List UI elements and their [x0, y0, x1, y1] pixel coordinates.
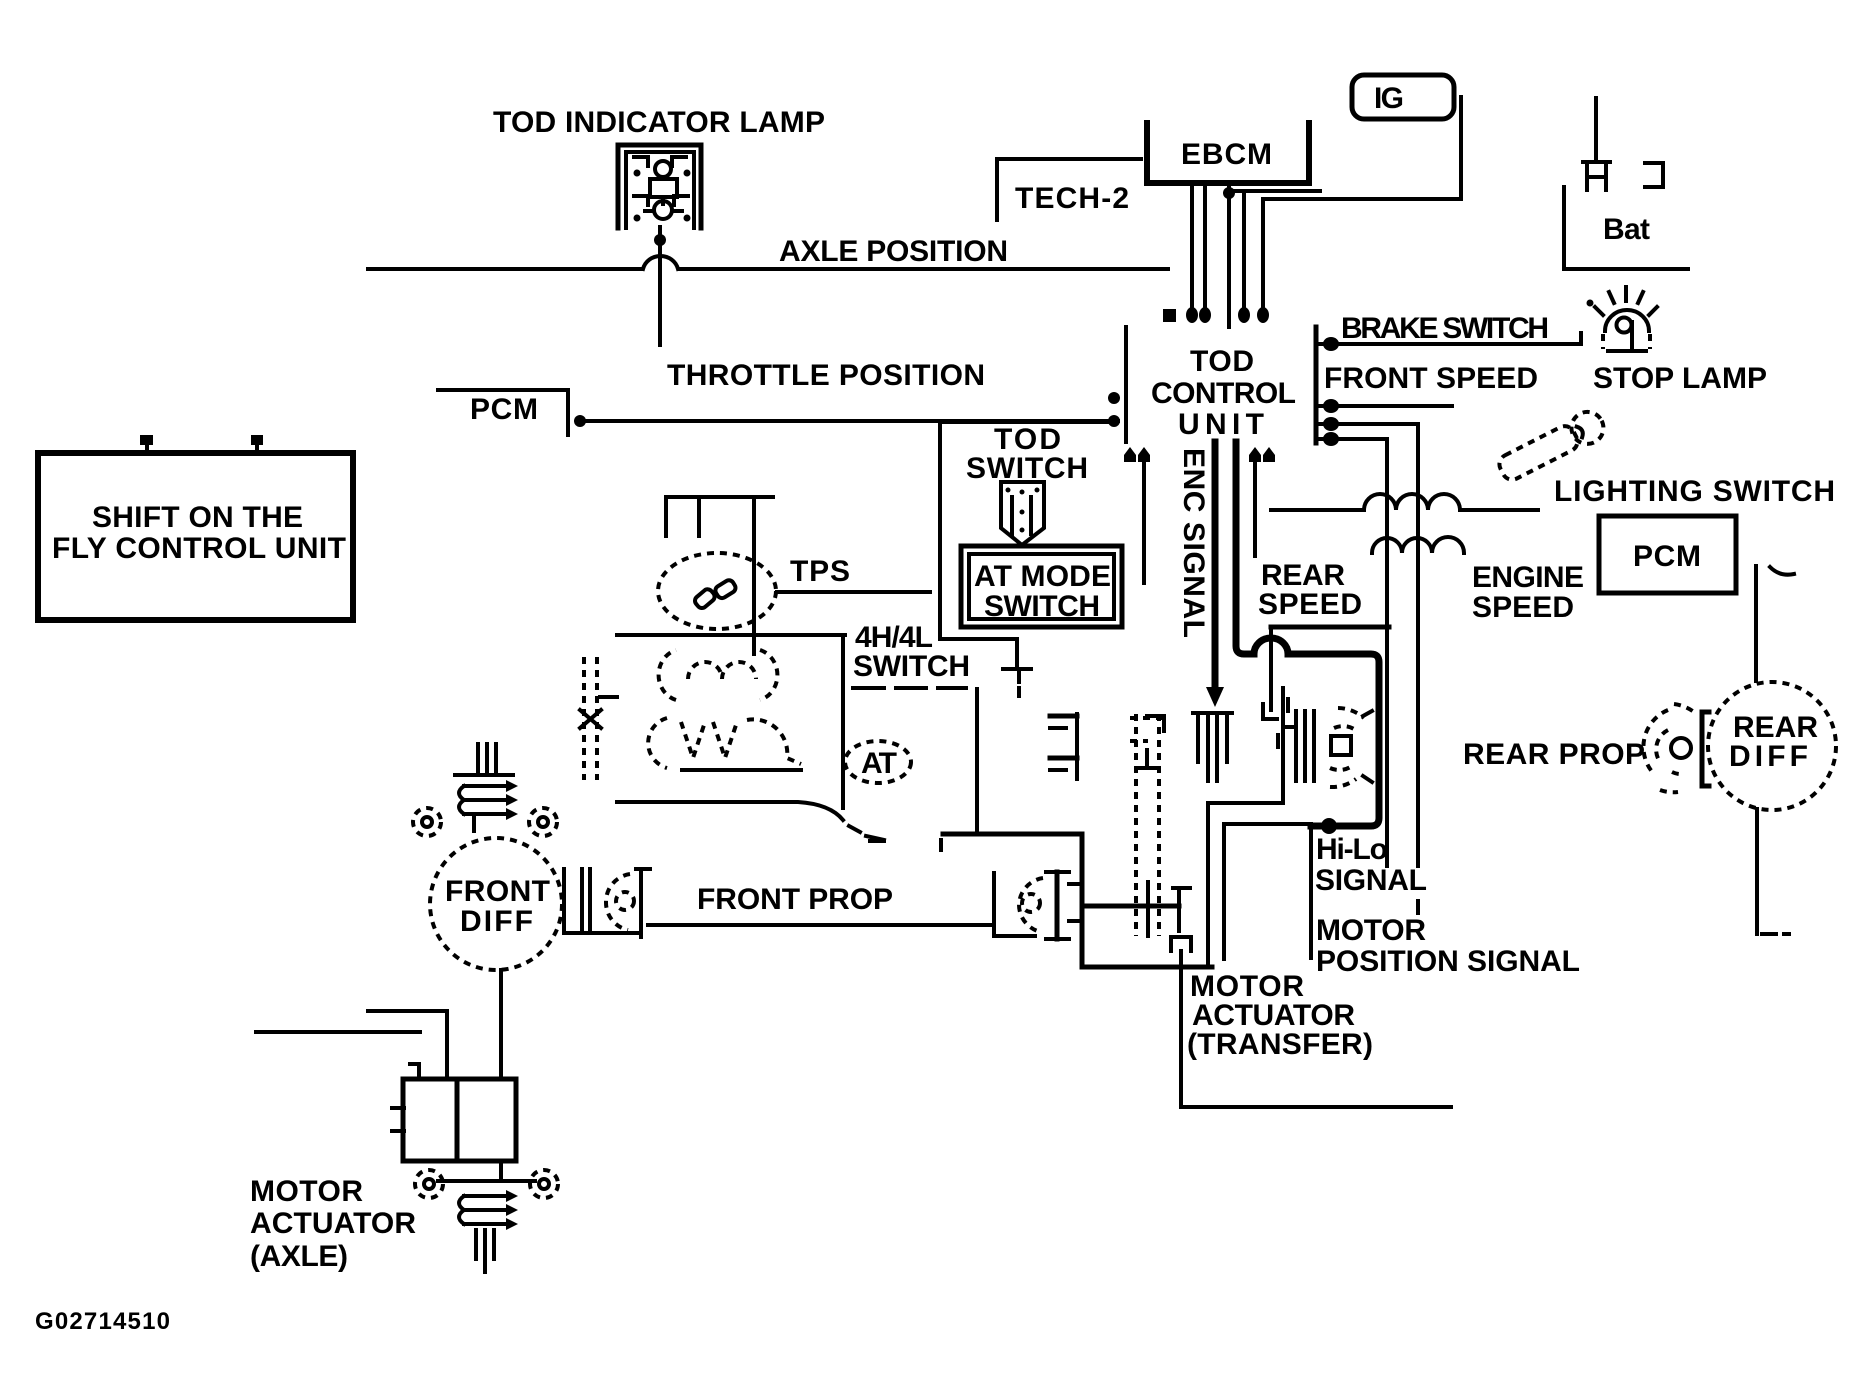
wire TECH-2	[997, 159, 1141, 220]
wire engine speed branch	[1318, 424, 1418, 866]
junction dot at TOD unit upper	[1108, 392, 1120, 404]
svg-text:(AXLE): (AXLE)	[250, 1240, 348, 1273]
connector blob pin c	[1238, 307, 1250, 323]
thin wire under hop	[1269, 629, 1273, 710]
svg-text:UNIT: UNIT	[1178, 408, 1264, 441]
battery plate right	[1645, 163, 1663, 187]
svg-text:AT: AT	[861, 747, 897, 780]
TOD switch panel top edge	[940, 421, 1115, 422]
svg-text:TECH-2: TECH-2	[1015, 182, 1129, 215]
AT case outline bottom with curve	[617, 802, 843, 820]
front prop right bracket L	[994, 873, 1035, 936]
wire front diff down	[499, 970, 503, 1079]
rear diff wire end dashes	[1762, 932, 1789, 936]
svg-text:TOD INDICATOR LAMP: TOD INDICATOR LAMP	[493, 106, 825, 139]
wire actuator to axle	[499, 1161, 503, 1181]
transfer output shaft	[1082, 904, 1179, 909]
circle REAR DIFF (dash-dot)	[1708, 682, 1836, 810]
wire from IG down and to EBCM area	[1263, 97, 1461, 318]
svg-text:STOP LAMP: STOP LAMP	[1593, 362, 1767, 395]
svg-text:MOTOR: MOTOR	[250, 1175, 363, 1208]
transmission case lower arcs (dashed)	[648, 718, 801, 768]
pin arrow 1 below TOD unit left	[1124, 447, 1136, 462]
wire EBCM pin 3	[1227, 183, 1231, 327]
svg-text:Bat: Bat	[1603, 213, 1650, 246]
svg-text:TPS: TPS	[790, 555, 850, 588]
transfer input shaft bar	[1046, 872, 1082, 939]
transfer case: selector dashed shafts	[1130, 714, 1165, 936]
TOD control unit left edge wire	[1124, 327, 1128, 442]
rear prop coupling bracket	[1702, 712, 1709, 786]
box motor actuator (axle)	[392, 1064, 516, 1161]
rear prop gear (dashed arcs + circle)	[1643, 704, 1694, 792]
wire EBCM pin 1	[1190, 183, 1194, 318]
pin arrow 4 mark	[1263, 447, 1275, 462]
front prop gear (dashed C + circle)	[606, 874, 634, 930]
svg-text:ENGINE: ENGINE	[1472, 561, 1584, 594]
transfer case housing top	[943, 832, 1082, 837]
wire clutch to motor actuator	[1208, 688, 1283, 964]
rear speed box bottom edge	[1271, 625, 1389, 630]
thick ENC signal wire with down arrow	[1206, 442, 1224, 707]
svg-text:AXLE POSITION: AXLE POSITION	[779, 235, 1008, 268]
transfer case: 4H4L contact bracket	[1140, 716, 1164, 768]
connector IG (rounded box)	[1352, 75, 1454, 119]
label TOD CONTROL UNIT	[1151, 345, 1296, 441]
pin arrow 3 with stub wire	[1249, 447, 1261, 556]
transmission input dashed shafts	[580, 657, 617, 780]
TOD switch panel left edge	[938, 422, 942, 639]
AT case trailing dashes	[849, 826, 884, 841]
svg-text:SWITCH: SWITCH	[984, 590, 1100, 623]
svg-text:DIFF: DIFF	[1729, 740, 1808, 773]
front prop bracket	[636, 869, 650, 937]
pin 2 on shift box	[251, 435, 263, 453]
lamp STOP LAMP icon	[1587, 287, 1658, 351]
transmission case top arcs (dashed)	[659, 650, 778, 700]
battery corner wire	[1564, 187, 1688, 269]
thick wire to transfer case right	[1288, 654, 1379, 826]
actuator spring symbol above front diff	[455, 744, 518, 831]
TPS link icon	[693, 573, 739, 616]
wire AXLE POSITION left segment	[368, 267, 642, 271]
wire stub upper left of actuator	[368, 1011, 447, 1079]
axle cross shaft	[438, 1179, 535, 1183]
transmission inner line	[682, 768, 801, 772]
box PCM right	[1599, 516, 1736, 593]
svg-text:IG: IG	[1374, 82, 1404, 115]
ground wire from TOD panel	[940, 639, 1017, 667]
svg-text:MOTOR: MOTOR	[1316, 914, 1426, 947]
svg-text:EBCM: EBCM	[1181, 138, 1272, 171]
wire TOD unit pin to rear-speed loop (thick)	[1236, 442, 1254, 654]
transfer case housing bottom	[1082, 965, 1212, 970]
circle FRONT DIFF (dash-dot)	[430, 838, 562, 970]
svg-text:CONTROL: CONTROL	[1151, 377, 1296, 410]
junction dot on EBCM pin 3	[1223, 187, 1235, 199]
svg-text:FRONT: FRONT	[445, 875, 550, 908]
Hi-Lo signal thin wire (n shape)	[1224, 824, 1311, 959]
wire EBCM branch stub	[1229, 189, 1320, 193]
transfer case: clutch pack 2	[1278, 699, 1314, 781]
connector blob pin d	[1257, 307, 1269, 323]
transfer case housing left vertical	[1080, 834, 1085, 967]
svg-text:G02714510: G02714510	[35, 1308, 170, 1335]
connector blob pin a	[1186, 307, 1198, 323]
transfer input gear (dashed C + circle)	[1019, 878, 1043, 932]
dash below engine-speed wire end	[1416, 901, 1420, 913]
svg-text:SWITCH: SWITCH	[853, 650, 970, 683]
pin 1 on shift box	[140, 435, 153, 453]
svg-text:SPEED: SPEED	[1258, 588, 1362, 621]
transfer case: clutch bracket L	[1263, 704, 1277, 719]
svg-text:THROTTLE POSITION: THROTTLE POSITION	[667, 359, 985, 392]
junction dot under lamp	[654, 234, 666, 246]
svg-text:AT MODE: AT MODE	[974, 560, 1111, 593]
svg-text:TOD: TOD	[1190, 345, 1254, 378]
svg-text:FRONT SPEED: FRONT SPEED	[1324, 362, 1538, 395]
AT case outline top	[617, 633, 845, 637]
wire EBCM pin 4	[1242, 191, 1246, 318]
wire AXLE POSITION right segment	[679, 267, 1168, 271]
svg-text:FLY CONTROL UNIT: FLY CONTROL UNIT	[52, 532, 346, 565]
wire lamp to axle-position line	[658, 227, 662, 345]
svg-text:LIGHTING SWITCH: LIGHTING SWITCH	[1554, 475, 1835, 508]
junction dot at TOD unit lower	[1108, 415, 1120, 427]
AT case outline right	[841, 635, 845, 808]
wire motor actuator transfer	[1181, 951, 1451, 1107]
battery feed wire	[1594, 98, 1598, 161]
front prop shaft wire	[648, 923, 994, 927]
pin arrow 2 below TOD unit left with wire	[1138, 447, 1150, 583]
transfer case: input plates	[1050, 714, 1077, 779]
TOD switch symbol (shield)	[1001, 482, 1044, 545]
coil row 2	[1372, 537, 1464, 553]
wire rear diff down	[1755, 809, 1759, 934]
lamp TOD indicator (box with lamp symbol)	[618, 145, 701, 228]
coil row 1	[1271, 494, 1538, 510]
connector pin square at TOD unit top	[1163, 309, 1176, 322]
EBCM box (open top)	[1147, 123, 1309, 183]
svg-text:(TRANSFER): (TRANSFER)	[1187, 1028, 1373, 1061]
TPS wire vertical	[752, 497, 756, 654]
junction dot engine speed	[1323, 417, 1339, 431]
svg-text:BRAKE SWITCH: BRAKE SWITCH	[1341, 312, 1549, 345]
svg-text:POSITION SIGNAL: POSITION SIGNAL	[1316, 945, 1580, 978]
svg-text:SHIFT ON THE: SHIFT ON THE	[92, 501, 303, 534]
wire EBCM pin 2	[1203, 183, 1207, 318]
axle nut left	[415, 1170, 443, 1198]
transfer gear bar mid	[1146, 882, 1150, 936]
svg-text:REAR PROP: REAR PROP	[1463, 738, 1645, 771]
svg-text:ENC SIGNAL: ENC SIGNAL	[1177, 448, 1210, 638]
connector blob pin b	[1199, 307, 1211, 323]
box AT MODE SWITCH	[961, 546, 1122, 627]
transfer case: clutch pack 1	[1193, 713, 1232, 781]
svg-text:SPEED: SPEED	[1472, 591, 1574, 624]
wire PCM to TOD control unit	[578, 419, 1118, 423]
4H/4L switch dashes	[853, 686, 966, 690]
svg-text:SIGNAL: SIGNAL	[1315, 864, 1427, 897]
PCM (left) corner lines	[438, 390, 568, 435]
wire TPS to panel	[777, 590, 930, 594]
wire PCM to rear diff	[1754, 566, 1758, 681]
junction dot brake switch	[1323, 337, 1339, 351]
axle spring symbol	[459, 1190, 518, 1272]
box SHIFT ON THE FLY CONTROL UNIT	[38, 453, 353, 620]
wire front speed	[1318, 404, 1452, 408]
AT bubble (dashed ellipse)	[845, 741, 911, 783]
transfer gear bar right with serif	[1173, 888, 1190, 931]
svg-text:PCM: PCM	[1633, 540, 1701, 573]
TPS ellipse (dashed)	[658, 553, 776, 629]
junction dot front speed	[1323, 399, 1339, 413]
axle nut right	[530, 1170, 558, 1198]
ground bar	[1003, 667, 1031, 671]
wire brake switch	[1318, 333, 1581, 344]
svg-text:PCM: PCM	[470, 393, 538, 426]
junction dot Hi-Lo	[1321, 818, 1337, 834]
hop on thick wire	[1254, 638, 1288, 654]
key icon (ignition key, dashed)	[1495, 406, 1609, 485]
wire 4H4L switch to transfer	[975, 689, 979, 834]
battery plate left	[1583, 162, 1610, 190]
svg-text:DIFF: DIFF	[460, 905, 533, 938]
wire rear speed branch	[1318, 439, 1387, 866]
wire stub left of actuator	[256, 1030, 420, 1034]
housing top-left dash	[939, 840, 943, 850]
ground stub	[1017, 671, 1021, 682]
transfer case: output gear (dashed)	[1330, 708, 1372, 787]
junction dot rear speed	[1323, 432, 1339, 446]
junction dot at PCM wire left	[574, 415, 586, 427]
bus wire from TOD unit right side	[1314, 327, 1319, 443]
front diff output coupling	[564, 869, 640, 933]
svg-text:FRONT PROP: FRONT PROP	[697, 883, 893, 916]
wire hop over lamp wire	[643, 256, 678, 269]
tilde mark near PCM wire	[1770, 567, 1794, 575]
bolt nut left of front diff	[413, 808, 441, 836]
bolt nut right of front diff	[529, 808, 557, 836]
TPS bracket	[666, 497, 773, 536]
motor actuator n symbol	[1171, 937, 1191, 951]
ground tick	[1017, 688, 1021, 696]
svg-text:Hi-Lo: Hi-Lo	[1316, 833, 1388, 866]
svg-text:ACTUATOR: ACTUATOR	[250, 1207, 416, 1240]
